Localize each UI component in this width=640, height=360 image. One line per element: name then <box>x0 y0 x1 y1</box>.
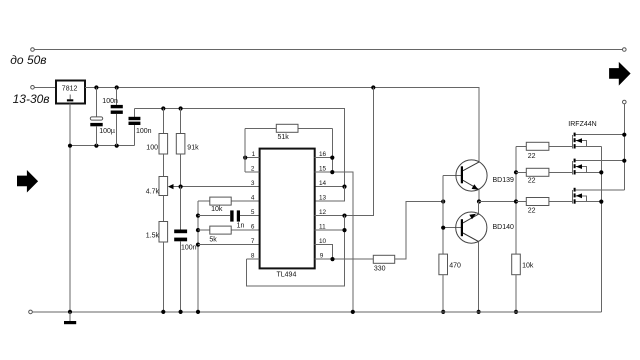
transistor Q2 BD140 <box>456 212 514 243</box>
capacitor C2 100n <box>102 88 122 146</box>
svg-text:5k: 5k <box>209 236 217 243</box>
wire pin12/pin11 vertical down to pin8 loop <box>246 216 344 287</box>
wire top supply rail до 50в <box>34 49 622 51</box>
svg-text:330: 330 <box>374 265 386 272</box>
node junction bus pin5 row <box>196 214 200 218</box>
svg-text:10: 10 <box>319 238 327 245</box>
node junction gnd 1.5k <box>161 310 165 314</box>
svg-text:13-30в: 13-30в <box>13 92 50 106</box>
wire BD140 base lead <box>443 227 461 229</box>
svg-text:16: 16 <box>319 151 327 158</box>
node T2 terminal (13-30в input) <box>31 86 35 90</box>
node T3 terminal (output top right) <box>623 48 627 52</box>
node junction source M3 <box>599 200 603 204</box>
svg-text:2: 2 <box>251 165 255 172</box>
svg-text:до 50в: до 50в <box>10 53 46 67</box>
ground symbol main <box>64 312 76 324</box>
node junction gnd 7812 lead <box>68 310 72 314</box>
svg-text:22: 22 <box>528 178 536 185</box>
wire pin2 stub <box>245 171 259 173</box>
transistor M3 IRFZ44N <box>572 188 624 204</box>
svg-text:12: 12 <box>319 209 327 216</box>
resistor R8 330 <box>373 202 443 273</box>
wire pin16 stub <box>315 157 333 159</box>
svg-text:1n: 1n <box>237 223 245 230</box>
node junction gnd at 7812 lead <box>68 144 72 148</box>
node junction bus pin7 row <box>196 243 200 247</box>
wire pin8 stub <box>246 258 259 260</box>
transistor M1 IRFZ44N <box>568 121 624 148</box>
svg-text:100n: 100n <box>181 244 197 251</box>
svg-text:6: 6 <box>251 223 255 230</box>
node junction bus pin6 row <box>196 228 200 232</box>
resistor R13 22 (gate M3) <box>516 198 572 215</box>
regulator U2 7812 <box>56 81 85 104</box>
wire BD139 base lead <box>443 174 461 176</box>
svg-text:22: 22 <box>528 153 536 160</box>
wire BD140 emitter from junction <box>478 202 480 214</box>
wire 12V rail from 7812 to BD139 collector <box>85 88 479 162</box>
node junction wiper/91k/C4 <box>179 185 183 189</box>
svg-text:4.7k: 4.7k <box>146 188 160 195</box>
wire drains bus <box>623 104 625 190</box>
resistor R11 22 (gate M1) <box>516 142 572 160</box>
transistor M2 IRFZ44N <box>572 159 624 175</box>
ground symbol inside 7812 <box>67 95 73 102</box>
wire 7812 ground lead down to ground rail <box>69 104 71 312</box>
svg-text:1.5k: 1.5k <box>146 233 160 240</box>
capacitor C1 100µ electrolytic <box>90 88 115 146</box>
node junction BD140 collector gnd <box>477 310 481 314</box>
node junction pin14 Vref <box>342 185 346 189</box>
resistor R5 10k <box>198 197 260 213</box>
node junction Vref at R1 <box>161 106 165 110</box>
wire Vref rail <box>135 109 345 187</box>
arrow output (top right) <box>609 62 631 86</box>
node junction pin11 <box>342 228 346 232</box>
wire pin1 stub <box>245 157 259 159</box>
node T1 terminal (до 50в) <box>31 48 35 52</box>
node junction gate bus row2 <box>514 170 518 174</box>
node junction pin12 <box>342 214 346 218</box>
wire pin10 stub down to pin9 <box>315 245 333 260</box>
svg-text:13: 13 <box>319 194 327 201</box>
node junction drain M1 <box>622 133 626 137</box>
wire TL494 pin14 stub <box>315 186 345 188</box>
resistor R9 470 <box>439 254 461 314</box>
svg-text:470: 470 <box>449 263 461 270</box>
wire pin7 stub <box>198 244 260 246</box>
resistor R1 100 <box>146 109 167 177</box>
wire pin1/pin2 vertical to 51k <box>244 128 246 172</box>
capacitor C3 100n (Vref filter) <box>129 109 152 146</box>
svg-text:11: 11 <box>319 223 326 230</box>
svg-text:3: 3 <box>251 180 255 187</box>
svg-text:22: 22 <box>528 208 536 215</box>
svg-text:100: 100 <box>146 144 158 151</box>
node junction gnd pin15 <box>351 310 355 314</box>
svg-text:7812: 7812 <box>62 86 78 93</box>
svg-text:100n: 100n <box>136 128 152 135</box>
svg-text:1: 1 <box>252 151 256 158</box>
node junction driver input at bases <box>441 199 445 203</box>
resistor R6 5k <box>198 226 260 243</box>
svg-text:TL494: TL494 <box>277 271 297 278</box>
wire emitters to gate bus <box>479 201 516 203</box>
wire bases vertical <box>442 175 444 254</box>
wire gate bus vertical <box>515 146 517 254</box>
svg-text:7: 7 <box>251 238 255 245</box>
pin number labels left <box>251 151 256 259</box>
node junction Vref at R2 <box>179 106 183 110</box>
svg-text:BD139: BD139 <box>493 177 515 184</box>
svg-text:5: 5 <box>251 209 255 216</box>
wire 51k right lead <box>298 127 332 129</box>
resistor R10 10k (gate pulldown) <box>512 254 534 314</box>
capacitor C5 1n <box>198 210 260 229</box>
op-amp U1 TL494 body <box>260 149 315 279</box>
svg-text:4: 4 <box>251 194 255 201</box>
wire BD140 collector to ground <box>478 242 480 312</box>
transistor Q1 BD139 <box>456 160 514 191</box>
wire input to regulator <box>34 86 56 88</box>
svg-text:14: 14 <box>319 180 327 187</box>
svg-text:10k: 10k <box>211 206 223 213</box>
wire timing bus vertical <box>197 201 199 312</box>
capacitor C4 100n <box>174 187 196 312</box>
wire pin15 stub to ground drop <box>315 172 353 312</box>
potentiometer R3 4.7k <box>146 177 168 222</box>
node junction pin9 <box>330 257 334 261</box>
node junction emitters <box>477 199 481 203</box>
node junction pin15 <box>330 170 334 174</box>
node junction source M2 <box>599 170 603 174</box>
svg-text:100n: 100n <box>102 98 118 105</box>
resistor R2 91k <box>176 109 199 187</box>
pin number labels right <box>319 151 327 259</box>
node junction gate bus row3 <box>514 199 518 203</box>
arrow input (left) <box>17 170 38 193</box>
node T4 terminal (output to MOSFET drains) <box>623 100 627 104</box>
svg-text:10k: 10k <box>522 263 534 270</box>
svg-text:IRFZ44N: IRFZ44N <box>568 121 596 128</box>
wire TL494 pin13 stub <box>315 187 345 202</box>
wire pot wiper to TL494 pin3 <box>168 184 260 189</box>
node junction pin1 <box>243 156 247 160</box>
wire ground rail <box>32 311 601 313</box>
svg-text:BD140: BD140 <box>493 224 515 231</box>
wire pin12 stub <box>315 215 345 217</box>
node junction gnd bus <box>196 310 200 314</box>
node junction BD140 base <box>441 226 445 230</box>
wire BD139 emitter to junction <box>478 190 480 202</box>
node junction gnd at C1 <box>94 144 98 148</box>
wire 51k left lead <box>245 127 276 129</box>
node T5 terminal ground left <box>29 310 33 314</box>
wire sources bus <box>600 146 602 312</box>
node junction drain M2 <box>622 159 626 163</box>
wire 12V drop to TL494 pin 12 <box>315 88 374 216</box>
wire ground link under caps <box>70 145 135 147</box>
wire 51k to pin16/pin15 vertical <box>331 128 333 172</box>
node junction 12V drop to pin12 <box>371 85 375 89</box>
resistor R4 1.5k <box>146 222 168 312</box>
resistor R7 51k <box>276 124 298 141</box>
svg-text:51k: 51k <box>278 134 290 141</box>
resistor R12 22 (gate M2) <box>516 168 572 184</box>
node junction 12V at C1 <box>94 85 98 89</box>
node junction pin16 <box>330 156 334 160</box>
wire pin11 stub <box>315 229 345 231</box>
node junction gnd C4 <box>179 310 183 314</box>
svg-text:91k: 91k <box>187 144 199 151</box>
wire pin9 stub to R8 <box>315 258 374 260</box>
svg-text:15: 15 <box>319 165 327 172</box>
svg-text:8: 8 <box>251 252 255 259</box>
svg-text:9: 9 <box>320 252 324 259</box>
svg-text:100µ: 100µ <box>99 128 115 135</box>
node junction gnd at C2 <box>115 144 119 148</box>
node junction 12V at C2 <box>115 85 119 89</box>
